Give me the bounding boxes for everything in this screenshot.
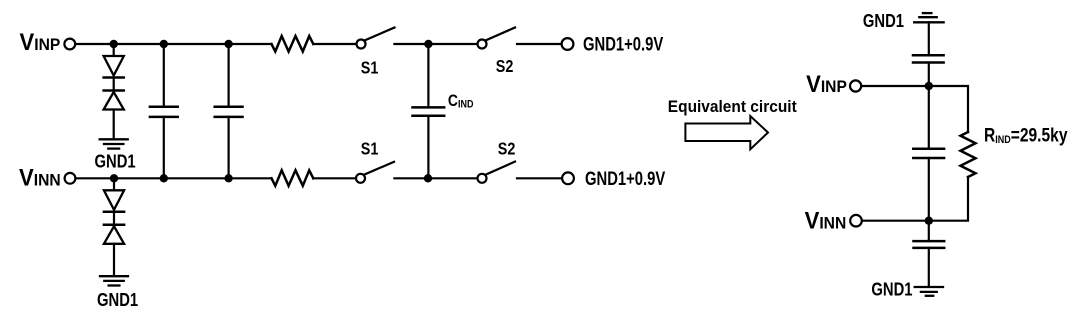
terminal GND1+0.9V top: [562, 38, 574, 50]
svg-text:S1: S1: [361, 58, 379, 78]
svg-text:S2: S2: [498, 139, 516, 159]
svg-text:CIND: CIND: [448, 92, 474, 111]
wire VINP right: [862, 85, 929, 87]
node junction VINP right: [925, 82, 933, 90]
wire S1 to S2 bottom: [394, 177, 477, 179]
capacitor middle right: [928, 86, 930, 149]
diode D2 top (anode down): [104, 89, 124, 92]
svg-text:GND1: GND1: [871, 279, 912, 300]
ground GND1 top right (inverted): [914, 13, 943, 22]
capacitor bottom right: [928, 221, 930, 241]
node junction cap2 bottom: [224, 174, 232, 182]
wire between diodes bottom: [113, 212, 115, 225]
diode D4 bottom (anode down): [104, 224, 124, 227]
switch S2 bottom contact: [478, 174, 487, 183]
wire diode branch bottom: [113, 178, 115, 190]
switch S1 top lever: [366, 28, 395, 41]
switch S1 top contact: [357, 40, 366, 49]
resistor bottom rail: [272, 170, 314, 186]
svg-text:VINP: VINP: [806, 70, 847, 97]
capacitor C2 (right shunt): [228, 44, 230, 107]
diode D3 bottom (anode up): [104, 190, 124, 210]
node junction Cind bottom: [424, 174, 432, 182]
node junction cap1 top: [160, 40, 168, 48]
resistor Rind: [961, 132, 976, 177]
wire S2 to terminal top: [517, 43, 562, 45]
terminal GND1+0.9V bottom: [562, 172, 574, 184]
capacitor C1 (left shunt): [163, 44, 165, 107]
wire diode to ground bottom: [113, 244, 115, 276]
wire S2 to terminal bottom: [517, 177, 562, 179]
switch S2 top contact: [478, 40, 487, 49]
switch S2 bottom lever: [487, 162, 516, 175]
svg-text:S2: S2: [496, 57, 514, 77]
node junction VINN right: [925, 217, 933, 225]
svg-text:Equivalent circuit: Equivalent circuit: [668, 97, 797, 116]
ground GND1 bottom stack: [100, 276, 128, 285]
svg-text:GND1: GND1: [95, 151, 136, 172]
ground GND1 top stack: [100, 139, 128, 148]
wire between diodes top: [113, 78, 115, 91]
wire diode to ground top: [113, 110, 115, 140]
terminal VINN: [65, 173, 76, 184]
switch S1 bottom lever: [365, 162, 394, 175]
wire resistor to S1 bottom: [313, 177, 356, 179]
terminal VINP right: [850, 80, 861, 91]
node junction diode branch bottom: [110, 174, 118, 182]
wire top rail left: [76, 43, 272, 45]
switch S2 top lever: [487, 28, 516, 41]
wire diode branch top: [113, 44, 115, 56]
svg-text:S1: S1: [361, 139, 379, 159]
svg-text:GND1: GND1: [863, 10, 904, 31]
node junction Cind top: [424, 40, 432, 48]
svg-text:VINN: VINN: [805, 207, 847, 234]
node junction cap1 bottom: [160, 174, 168, 182]
svg-text:GND1: GND1: [97, 289, 138, 310]
svg-text:VINN: VINN: [19, 163, 61, 190]
svg-text:GND1+0.9V: GND1+0.9V: [585, 168, 666, 189]
node junction diode branch top: [110, 40, 118, 48]
ground GND1 bottom right: [915, 287, 943, 296]
wire Rind branch bottom: [929, 177, 968, 221]
svg-text:GND1+0.9V: GND1+0.9V: [583, 34, 664, 55]
svg-text:RIND=29.5ky: RIND=29.5ky: [984, 124, 1068, 146]
terminal VINP: [64, 39, 75, 50]
block arrow: [685, 116, 768, 149]
resistor top rail: [272, 36, 314, 52]
terminal VINN right: [850, 215, 862, 227]
wire bottom rail left: [76, 177, 272, 179]
wire resistor to S1: [313, 43, 356, 45]
svg-text:VINP: VINP: [20, 28, 61, 55]
diode D1 top (anode up): [104, 56, 124, 76]
wire S1 to S2 top: [394, 43, 477, 45]
switch S1 bottom contact: [356, 174, 365, 183]
node junction cap2 top: [224, 40, 232, 48]
wire Rind branch top: [929, 86, 968, 132]
capacitor top right: [928, 22, 930, 55]
capacitor Cind: [427, 44, 429, 107]
wire VINN right: [862, 220, 928, 222]
